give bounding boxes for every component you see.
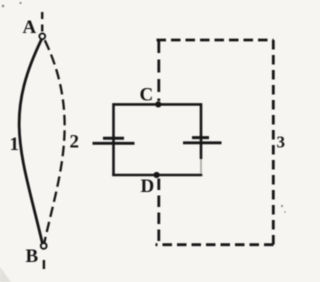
svg-text:3: 3 [277, 133, 286, 152]
svg-text:D: D [141, 176, 155, 197]
svg-text:C: C [140, 85, 154, 106]
svg-text:1: 1 [10, 134, 20, 155]
svg-text:A: A [23, 17, 37, 38]
svg-text:2: 2 [70, 132, 80, 153]
svg-text:B: B [26, 246, 39, 267]
